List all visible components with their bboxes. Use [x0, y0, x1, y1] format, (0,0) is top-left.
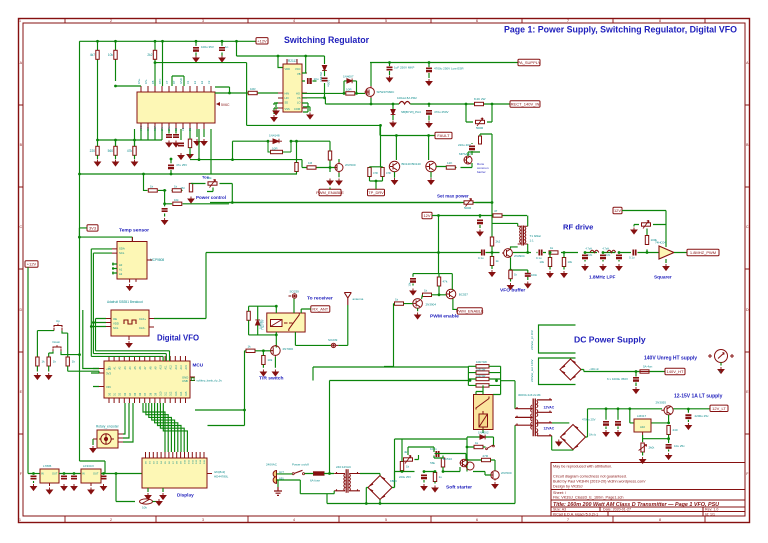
- square wave glyph U4: [124, 320, 136, 324]
- svg-text:300VA 2x6:2x18t: 300VA 2x6:2x18t: [518, 393, 541, 397]
- svg-text:DC Power Supply: DC Power Supply: [574, 335, 646, 345]
- pins U1 top: [141, 86, 211, 92]
- pin numbers U5 top: [109, 365, 189, 370]
- svg-text:C: C: [746, 225, 749, 229]
- junction coil top: [275, 305, 278, 308]
- svg-text:2N7000: 2N7000: [283, 347, 294, 351]
- svg-text:1:1: 1:1: [530, 239, 535, 243]
- wire R18 R19: [370, 125, 383, 189]
- resistor R45 27R: [482, 458, 491, 461]
- pin numbers U5 bottom: [109, 391, 189, 396]
- wire lpf stubs: [585, 253, 619, 262]
- resistor R32 1k: [490, 257, 493, 266]
- ic U3 MCP9808 body: [117, 242, 147, 280]
- svg-text:47u 25V: 47u 25V: [176, 163, 187, 167]
- ground BR2: [556, 440, 562, 446]
- ground U1 pin: [194, 139, 200, 145]
- ground R48: [432, 486, 438, 492]
- junction fb2: [295, 140, 298, 143]
- junction q10 e: [667, 422, 670, 425]
- trimmer RV5: [642, 223, 651, 226]
- ic U9 LM317 body: [634, 419, 651, 432]
- wire rf bias rail: [432, 216, 527, 253]
- svg-text:C1: C1: [186, 80, 190, 84]
- svg-text:PWM_ENABLE: PWM_ENABLE: [456, 309, 484, 314]
- svg-text:74HC04: 74HC04: [655, 241, 666, 245]
- junction U1 feed: [114, 85, 117, 88]
- svg-text:0.1u: 0.1u: [478, 256, 484, 260]
- wire mains hot: [277, 473, 335, 475]
- wire C9 bottom: [324, 83, 326, 98]
- wire D4: [392, 106, 394, 120]
- svg-text:1N4007: 1N4007: [343, 75, 354, 79]
- svg-text:A1: A1: [119, 268, 123, 272]
- svg-text:1k: 1k: [424, 289, 428, 293]
- connector J1 mains pin1: [273, 471, 276, 478]
- wire Q3 Q4: [395, 152, 481, 178]
- svg-text:LO: LO: [297, 101, 300, 105]
- wire pwm enable net: [394, 253, 458, 312]
- transformer TR2 core: [346, 469, 348, 493]
- svg-text:1k: 1k: [550, 246, 554, 250]
- svg-text:560: 560: [108, 149, 114, 153]
- wire BR2 out rail: [586, 409, 669, 437]
- resistor R3 2k2: [153, 50, 156, 59]
- wire MCU left stubs: [91, 369, 99, 387]
- svg-text:D11: D11: [165, 391, 168, 396]
- wire relay NO to antenna: [295, 305, 347, 345]
- svg-text:3V3: 3V3: [89, 226, 97, 231]
- ground Q3: [392, 178, 398, 184]
- junction C12: [428, 103, 431, 106]
- svg-text:4700u 25V: 4700u 25V: [582, 418, 596, 422]
- junction bank2: [495, 379, 498, 382]
- pins U9: [642, 432, 644, 435]
- pin name labels U1 top: [137, 78, 211, 84]
- wire C12b: [428, 116, 430, 121]
- wire C10: [389, 63, 391, 76]
- svg-text:HIN: HIN: [285, 92, 290, 96]
- ground R33: [508, 283, 514, 289]
- svg-text:10k: 10k: [539, 260, 544, 264]
- wire relay com up: [293, 299, 295, 313]
- svg-text:47R: 47R: [373, 171, 378, 175]
- junction ub1: [96, 139, 99, 142]
- ground R10: [188, 197, 194, 203]
- transistor Q8 BC557: [446, 289, 456, 299]
- junction smp: [491, 201, 494, 204]
- resistor R30: [437, 277, 440, 286]
- svg-text:2N3904: 2N3904: [514, 254, 525, 258]
- ground C11: [426, 79, 432, 85]
- svg-text:VDD: VDD: [113, 322, 119, 326]
- wire q10 pass: [669, 409, 710, 423]
- svg-text:1k: 1k: [150, 184, 154, 188]
- svg-text:Power on/off: Power on/off: [292, 463, 309, 467]
- pin name labels U1 bottom: [139, 125, 192, 131]
- encoder symbol: [99, 434, 114, 444]
- wire rv5: [634, 225, 666, 253]
- svg-text:D12: D12: [170, 391, 173, 396]
- svg-text:SB[BYW]_PA4: SB[BYW]_PA4: [401, 110, 421, 114]
- global label PWM_ENABLE 2: [456, 308, 484, 314]
- ground R27: [260, 370, 266, 376]
- bridge rectifier BR2: [561, 425, 586, 450]
- capacitor C24: [616, 255, 622, 257]
- svg-text:File: VK3SJ_ClassD_E_160m_Page: File: VK3SJ_ClassD_E_160m_Page1.sch: [553, 496, 624, 500]
- pins DS1 top: [146, 452, 205, 458]
- svg-text:VCC: VCC: [295, 67, 301, 71]
- svg-text:12-15V 1A LT supply: 12-15V 1A LT supply: [674, 394, 723, 400]
- svg-text:1M: 1M: [308, 161, 313, 165]
- ground ENC1: [90, 446, 96, 452]
- junction div: [465, 103, 468, 106]
- capacitor C9 100n: [322, 78, 328, 80]
- ground R7: [187, 152, 193, 158]
- capacitor C12 470u 250V: [426, 111, 432, 113]
- junction lt1: [605, 407, 608, 410]
- power label +12V rf1: [422, 212, 432, 218]
- junction aux: [198, 158, 201, 161]
- fuse F1 6A: [314, 472, 325, 475]
- wire C34: [687, 420, 689, 422]
- svg-text:500R: 500R: [464, 206, 472, 210]
- resistor R6 47k: [133, 146, 136, 155]
- svg-text:A11: A11: [165, 365, 168, 370]
- svg-text:DTC: DTC: [158, 79, 162, 84]
- svg-text:5V6C: 5V6C: [221, 103, 230, 107]
- ground U8: [663, 264, 669, 270]
- relay K2 body: [474, 395, 494, 430]
- global label TP: [368, 189, 385, 195]
- transistor Q2 MPSA42: [464, 156, 472, 164]
- button SW1 up: [54, 324, 62, 331]
- svg-text:A2: A2: [119, 272, 123, 276]
- junction top rail c: [154, 40, 157, 43]
- wire 12vac run: [327, 503, 515, 505]
- ground C22: [582, 264, 588, 270]
- svg-text:6.8n: 6.8n: [588, 254, 593, 257]
- junction ss3: [434, 470, 437, 473]
- svg-text:100n: 100n: [327, 80, 331, 87]
- resistor R39 240: [667, 426, 670, 435]
- junction rf bias2: [479, 214, 482, 217]
- antenna ANT1: [344, 293, 351, 306]
- svg-text:IN: IN: [82, 472, 85, 476]
- junction lt riser: [628, 407, 631, 410]
- svg-text:Soft starter: Soft starter: [446, 485, 472, 491]
- junction rail-bus: [78, 173, 81, 176]
- svg-text:10k: 10k: [174, 198, 179, 202]
- svg-text:IN: IN: [41, 472, 44, 476]
- svg-text:C2: C2: [207, 80, 211, 84]
- svg-text:1IN-: 1IN-: [144, 79, 148, 84]
- svg-text:SPW47N60C: SPW47N60C: [377, 90, 396, 94]
- transistor Q5 2N7000: [335, 162, 343, 173]
- resistor R22: [36, 357, 39, 366]
- svg-text:4k7: 4k7: [90, 53, 95, 57]
- wire BR1 out: [581, 370, 666, 372]
- wire C11: [428, 63, 430, 79]
- pins U5 top: [109, 356, 186, 361]
- ground C2: [219, 56, 225, 62]
- svg-text:47: 47: [494, 209, 498, 213]
- resistor R27 10k: [262, 356, 265, 365]
- pins U7: [90, 483, 92, 486]
- junction ss4: [442, 470, 445, 473]
- svg-text:2k0t: 2k0t: [649, 446, 655, 450]
- svg-text:VSS: VSS: [285, 107, 290, 111]
- svg-text:1M: 1M: [180, 186, 185, 190]
- junction r21: [329, 166, 332, 169]
- wire rf signal rail: [206, 252, 660, 254]
- ground RV5: [631, 228, 637, 234]
- junction sq gate: [646, 251, 649, 254]
- ic U1 TL494 body: [137, 92, 215, 123]
- resistor R23: [47, 357, 50, 366]
- svg-text:2k2: 2k2: [496, 240, 501, 244]
- ground C37: [421, 484, 427, 490]
- svg-text:1: 1: [19, 19, 21, 23]
- junction pc2: [163, 189, 166, 192]
- ic U6 L7805 body: [40, 469, 59, 483]
- wire C32: [605, 427, 607, 430]
- ic U2 IR2113 body: [283, 64, 302, 112]
- svg-text:BC510: BC510: [443, 457, 453, 461]
- svg-text:10u 25v: 10u 25v: [674, 444, 685, 448]
- relay K2 contact: [476, 397, 489, 410]
- transformer T1 secondary: [525, 226, 528, 244]
- wire reg1-reg2: [59, 474, 81, 475]
- svg-text:Squarer: Squarer: [654, 275, 672, 280]
- svg-text:4700u 250V Low ESR: 4700u 250V Low ESR: [434, 67, 464, 71]
- svg-text:HD44780L: HD44780L: [214, 475, 229, 479]
- global label 12V_LT: [710, 405, 728, 411]
- wire +12V feed regulators: [28, 174, 105, 474]
- junction ss2: [423, 470, 426, 473]
- ground C20: [477, 230, 483, 236]
- ground R22: [34, 373, 40, 379]
- svg-text:FB: FB: [151, 80, 155, 84]
- junction aux2: [231, 158, 234, 161]
- svg-text:OUT: OUT: [52, 472, 58, 476]
- svg-text:100n: 100n: [531, 273, 538, 277]
- svg-text:OE: OE: [113, 317, 117, 321]
- pins ENC1: [93, 434, 123, 442]
- svg-text:1k: 1k: [406, 465, 410, 469]
- svg-text:Rotary_encoder: Rotary_encoder: [96, 425, 120, 429]
- svg-text:Build by Paul VK3HN (2019-20): Build by Paul VK3HN (2019-20) vk3hn.word…: [553, 480, 646, 484]
- svg-text:47k: 47k: [443, 280, 448, 284]
- svg-text:RECT_140V_IN: RECT_140V_IN: [511, 102, 540, 107]
- ground RV6: [640, 457, 646, 463]
- wire C6 leads: [170, 159, 172, 174]
- gate U8 74HC04: [659, 246, 674, 259]
- svg-text:+12V: +12V: [27, 262, 37, 267]
- svg-text:1N4742: 1N4742: [319, 72, 323, 82]
- pin labels DS1: [146, 459, 207, 464]
- svg-text:A0: A0: [119, 263, 123, 267]
- wire Q1 drain to PA rail: [370, 63, 372, 87]
- diode D5 1N4002: [480, 435, 485, 440]
- capacitor C17: [101, 476, 107, 478]
- svg-text:D14: D14: [180, 391, 183, 396]
- ground Q7: [415, 313, 421, 319]
- wire PA supply rail: [370, 62, 518, 64]
- svg-text:VB: VB: [297, 72, 301, 76]
- capacitor C23: [600, 255, 606, 257]
- ground DS1 b: [160, 493, 166, 499]
- ic DS1 display body: [142, 458, 207, 488]
- fuse F3 5A: [640, 370, 649, 373]
- svg-text:~100v dc: ~100v dc: [589, 368, 600, 371]
- junction C14: [32, 472, 35, 475]
- wire C8: [302, 80, 317, 82]
- ground R4: [95, 160, 101, 166]
- svg-text:KiCad E.D.A. kicad (5.0.2)-1: KiCad E.D.A. kicad (5.0.2)-1: [553, 512, 598, 516]
- wire U1 aux rail: [190, 129, 330, 168]
- junction mid regs: [63, 472, 66, 475]
- power label +12V sq: [613, 207, 622, 213]
- svg-text:D10: D10: [160, 391, 163, 396]
- pins U5 right: [190, 377, 195, 381]
- junction +12V drop: [235, 40, 238, 43]
- svg-text:softkey_bank_rly_5v: softkey_bank_rly_5v: [196, 379, 222, 383]
- junction rf base: [491, 251, 494, 254]
- svg-text:KBPC: KBPC: [390, 479, 397, 483]
- svg-text:1N4148: 1N4148: [269, 134, 280, 138]
- svg-text:Circuit diagram correctness no: Circuit diagram correctness not guarante…: [553, 475, 627, 479]
- svg-text:CLK+: CLK+: [139, 317, 146, 321]
- svg-text:Design by VK3SJ: Design by VK3SJ: [553, 484, 583, 488]
- capacitor C32 4700u 25V: [603, 422, 609, 424]
- global label PA_SUPPLY: [518, 59, 541, 65]
- svg-text:Switching Regulator: Switching Regulator: [284, 35, 370, 45]
- bridge rectifier BR1: [560, 359, 581, 380]
- svg-text:4: 4: [293, 518, 295, 522]
- svg-text:3V3: 3V3: [106, 372, 111, 376]
- svg-text:1N4001: 1N4001: [259, 319, 263, 329]
- junction C11: [428, 61, 431, 64]
- wire I2C to MCU: [91, 351, 169, 361]
- junction U2 vb: [304, 55, 307, 58]
- wire U1 bottom stubs: [141, 129, 211, 174]
- svg-text:IR2113: IR2113: [287, 59, 297, 63]
- ic U7 LM1117 body: [81, 469, 101, 483]
- diode D6 1N4001: [255, 320, 260, 325]
- wire ton cluster: [316, 160, 339, 177]
- junction sw4: [466, 446, 469, 449]
- trimmer RV6: [641, 443, 644, 452]
- svg-text:MPSA42: MPSA42: [459, 152, 471, 156]
- svg-text:2N3904: 2N3904: [426, 303, 437, 307]
- svg-text:140V Unreg HT supply: 140V Unreg HT supply: [644, 356, 697, 362]
- svg-text:2k2: 2k2: [147, 53, 152, 57]
- svg-text:220u 40V: 220u 40V: [458, 143, 471, 147]
- svg-text:100uH 8A PR2: 100uH 8A PR2: [397, 96, 417, 100]
- wire C14: [33, 474, 35, 484]
- svg-text:10R 5W: 10R 5W: [476, 360, 487, 364]
- wire contrast: [153, 501, 158, 503]
- ground mains earth: [274, 487, 282, 495]
- svg-text:RF drive: RF drive: [563, 223, 593, 232]
- resistor R44 1k: [474, 445, 483, 448]
- wire I2C SDA: [91, 249, 112, 357]
- wire reg1 in: [34, 473, 41, 475]
- power label +12V left: [25, 261, 38, 267]
- ground C33: [615, 430, 621, 436]
- ground C5: [178, 153, 184, 159]
- svg-text:BD140 BD140: BD140 BD140: [402, 162, 422, 166]
- ground U1 pin 2: [201, 139, 207, 145]
- resistor R42 10R 5W: [476, 377, 489, 380]
- ic U5 MCU body: [104, 361, 190, 398]
- junction div2: [491, 103, 494, 106]
- transistor Q1 SPW47N60 mosfet: [365, 86, 375, 98]
- global label 140V_HT: [665, 368, 685, 374]
- junction top rail a: [96, 40, 99, 43]
- junction d1 l: [267, 140, 270, 143]
- bridge rectifier BR3: [368, 476, 392, 500]
- capacitor C35 10u: [666, 445, 672, 447]
- wire pwm down: [384, 304, 394, 367]
- pins TR2: [334, 472, 360, 491]
- svg-text:2N7000: 2N7000: [501, 471, 512, 475]
- svg-text:6: 6: [476, 19, 478, 23]
- svg-text:Up: Up: [56, 319, 60, 323]
- capacitor C37 220u 25V: [421, 475, 427, 477]
- wire U3 addr stubs: [112, 263, 117, 275]
- inductor L4: [607, 250, 616, 252]
- wire C31: [635, 372, 637, 387]
- svg-text:A12: A12: [170, 365, 173, 370]
- svg-text:10k: 10k: [108, 53, 114, 57]
- wire U2 LO SD nets: [276, 103, 310, 112]
- capacitor C3: [166, 135, 172, 137]
- resistor R19: [381, 168, 384, 177]
- svg-text:8: 8: [659, 19, 661, 23]
- junction 12vac a: [365, 502, 368, 505]
- svg-text:12VAC: 12VAC: [544, 427, 555, 431]
- svg-text:May be reproduced with attribu: May be reproduced with attribution.: [553, 465, 612, 469]
- junction C1: [195, 40, 198, 43]
- svg-text:220: 220: [90, 149, 96, 153]
- ground C7: [162, 218, 168, 224]
- resistor R41 10R 5W: [476, 371, 489, 374]
- wire q5 top: [338, 159, 340, 162]
- wire u8 out: [666, 253, 687, 264]
- wire earth stub: [277, 480, 279, 487]
- junction rv1 out: [231, 201, 234, 204]
- capacitor C21: [539, 250, 541, 256]
- trimmer RV2 500R: [476, 120, 485, 123]
- svg-text:1k: 1k: [248, 344, 252, 348]
- svg-text:Display: Display: [177, 493, 194, 498]
- transformer T1 primary: [518, 226, 521, 244]
- junction U1-U2: [228, 92, 231, 95]
- connector J2 SO239: [289, 294, 297, 298]
- transistor Q13 BC547 second: [466, 462, 474, 470]
- wire rf q base: [491, 246, 493, 269]
- svg-text:T1 bifilar: T1 bifilar: [530, 234, 542, 238]
- wire lt adj net: [643, 435, 669, 444]
- wire VFO out: [154, 253, 206, 319]
- junction pc: [142, 173, 145, 176]
- diode D2 zener: [322, 65, 327, 70]
- transformer TR2 primary winding: [344, 474, 345, 491]
- wire D2-C9: [324, 71, 326, 77]
- wire U2 top feeds: [237, 56, 325, 73]
